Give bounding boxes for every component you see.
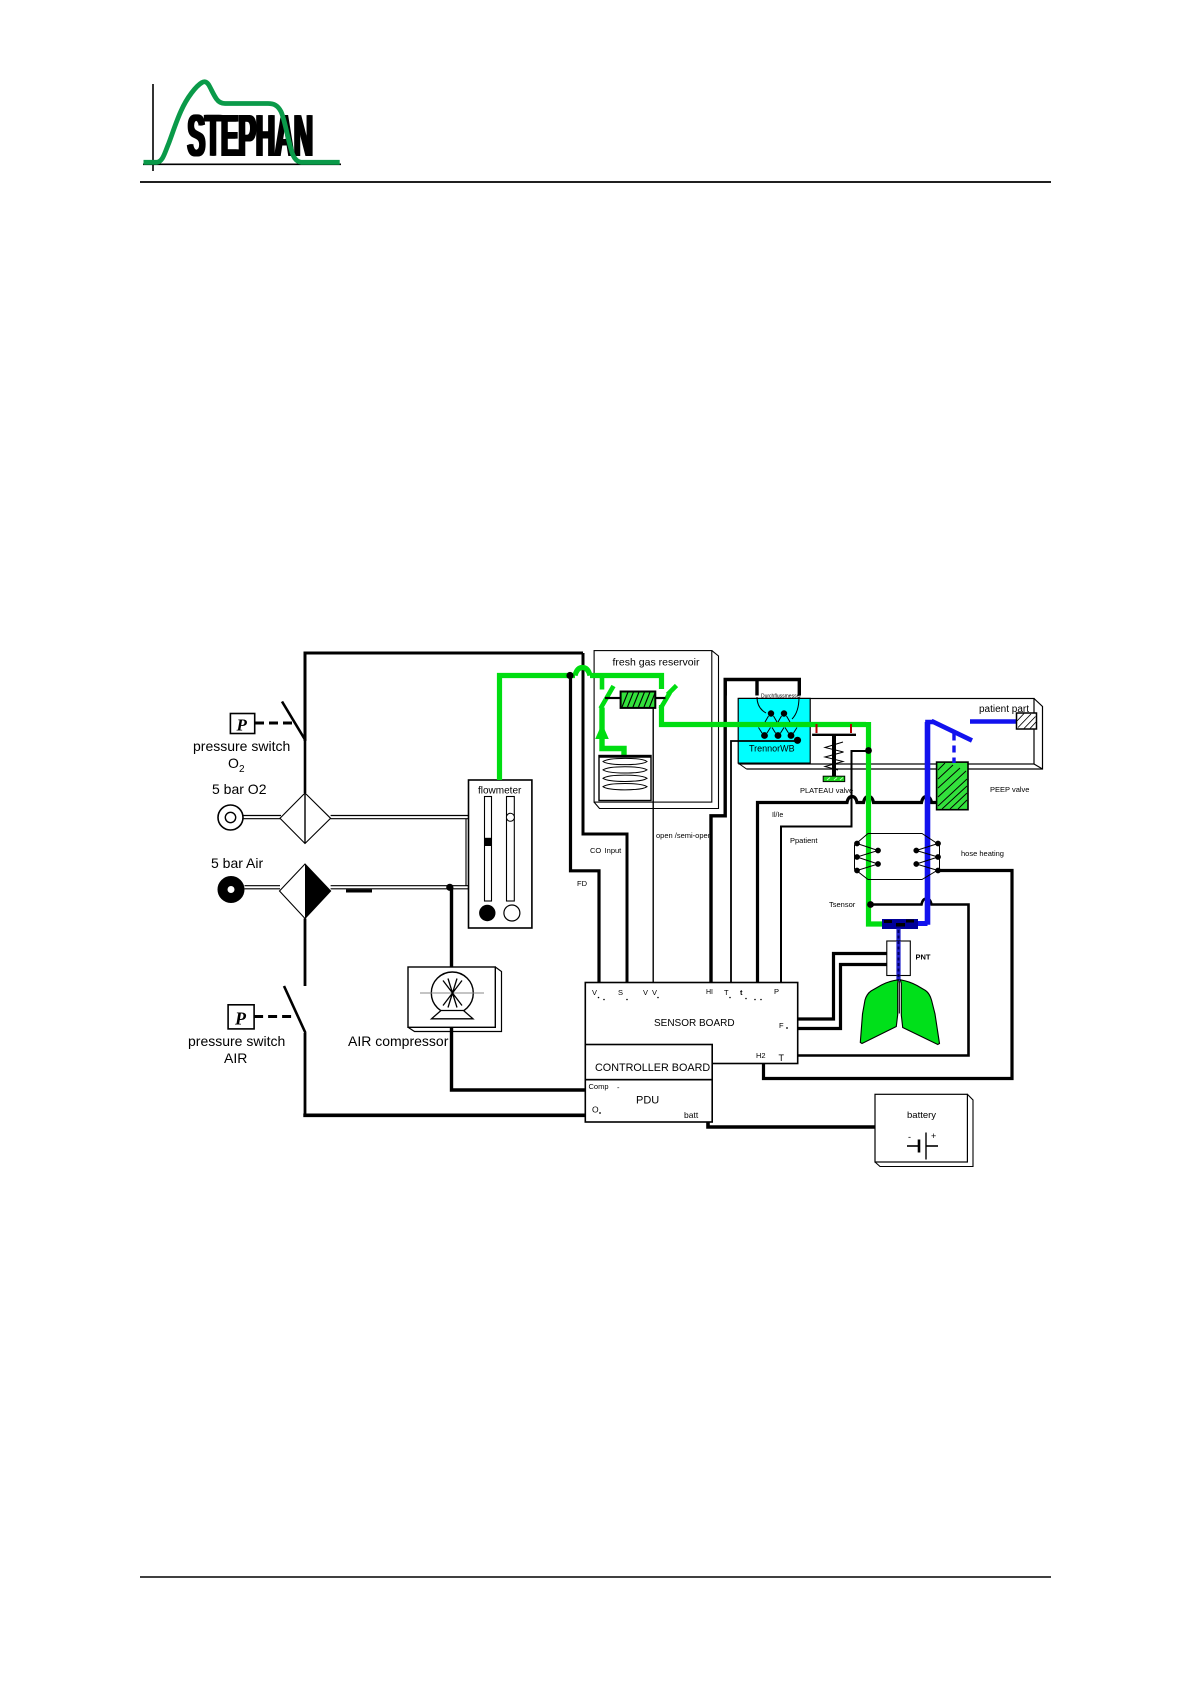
label pressure switch O2 xyxy=(193,738,290,775)
PEEP valve (green hatched) xyxy=(937,762,1030,810)
pressure switch AIR contact xyxy=(284,919,306,1117)
blue expiratory line down xyxy=(910,722,928,925)
wire: top supply line from O2 switch to CO-input drop xyxy=(305,653,583,741)
wire: flow sensor line B to PNT xyxy=(798,965,887,1029)
flowmeter right tube xyxy=(506,797,514,902)
wire: PDU batt to battery xyxy=(708,1122,875,1127)
svg-text:AIR: AIR xyxy=(224,1050,247,1066)
wire: compressor to PDU Comp input xyxy=(452,1027,586,1090)
PNT pneumotach xyxy=(887,929,931,982)
svg-text:T: T xyxy=(779,1053,785,1063)
svg-text:PDU: PDU xyxy=(636,1095,659,1107)
svg-text:V: V xyxy=(592,988,597,997)
green pipe down to Y-piece xyxy=(869,722,886,924)
label Durchflussmesser xyxy=(761,694,801,700)
svg-text:Tsensor: Tsensor xyxy=(829,900,856,909)
svg-text:HI: HI xyxy=(706,989,713,996)
O2 filter diamond xyxy=(280,741,331,844)
wire: flow sensor line A to PNT xyxy=(798,954,887,1020)
battery cell symbol xyxy=(907,1131,938,1160)
bellows container xyxy=(599,756,651,801)
wire: Trenner output to sensor board pin T xyxy=(731,741,798,983)
Air pipe double line (inlet to filter) xyxy=(245,886,281,889)
connector pins lower xyxy=(759,728,802,744)
O2 pipe double line (filter to flowmeter) xyxy=(331,816,469,819)
green line: left switch to bellows with arrows xyxy=(595,708,631,778)
label AIR compressor xyxy=(348,1033,449,1049)
logo green pressure curve xyxy=(144,82,340,163)
patient part box xyxy=(739,699,1043,770)
TrennerWB cyan box xyxy=(738,698,810,769)
flowmeter box xyxy=(469,780,532,928)
wire: open/semi-open line to sensor board xyxy=(653,708,712,983)
green pipe: flowmeter up and right to reservoir xyxy=(500,668,662,781)
wire: FD line to sensor board pin V xyxy=(571,677,600,983)
PDU xyxy=(585,1080,712,1122)
flowmeter left tube xyxy=(485,797,492,902)
O2 inlet connector xyxy=(218,805,243,830)
svg-text:V: V xyxy=(652,988,657,997)
svg-text:flowmeter: flowmeter xyxy=(478,786,522,797)
connector pins upper xyxy=(757,697,799,722)
svg-text:open /semi-open: open /semi-open xyxy=(656,831,712,840)
svg-text:batt: batt xyxy=(684,1110,699,1120)
label 5 bar Air xyxy=(211,855,263,871)
svg-text:P: P xyxy=(236,716,248,735)
flowmeter manifold line xyxy=(465,819,467,886)
footer rule xyxy=(140,1576,1051,1578)
svg-text:P: P xyxy=(774,987,779,996)
header rule xyxy=(140,181,1051,183)
fresh gas reservoir box xyxy=(594,651,718,809)
svg-text:S: S xyxy=(618,988,623,997)
patient connector (hatched) xyxy=(1017,713,1037,729)
svg-text:hose heating: hose heating xyxy=(961,849,1004,858)
label FD xyxy=(577,879,588,888)
wire: staple left leg to sensor board pin HI xyxy=(711,680,725,983)
svg-text:CO Input: CO Input xyxy=(590,846,622,855)
label Ii/Ie xyxy=(772,812,783,819)
wire: plateau/PEEP control line to pin t (with bridges) xyxy=(758,797,937,983)
svg-text:O: O xyxy=(592,1105,599,1115)
pressure switch O2 P-box xyxy=(230,714,294,735)
red mark 1 on green pipe xyxy=(816,724,818,733)
svg-text:P: P xyxy=(234,1009,247,1029)
label 5 bar O2 xyxy=(212,781,267,797)
green pipe: right switch down and right across Trenner to patient circuit xyxy=(662,705,867,725)
reservoir bypass valve (green hatched) xyxy=(605,692,666,708)
logo wordmark STEPHAN xyxy=(186,102,314,169)
CONTROLLER BOARD xyxy=(585,1045,712,1080)
Air inlet connector xyxy=(223,881,240,898)
svg-text:Il/Ie: Il/Ie xyxy=(772,812,783,819)
SENSOR BOARD xyxy=(585,983,797,1064)
red mark 2 on green pipe xyxy=(850,724,852,733)
wire: CO input line down to sensor board pin S xyxy=(583,653,627,983)
flowmeter knobs xyxy=(479,905,520,921)
wire: flow sensor staple bar xyxy=(725,680,799,696)
lungs xyxy=(860,980,939,1045)
green switch left (reservoir inlet) xyxy=(601,676,614,709)
svg-text:V: V xyxy=(643,988,648,997)
svg-text:Comp: Comp xyxy=(589,1082,609,1091)
Air check valve diamond xyxy=(280,864,331,919)
svg-text:TrennorWB: TrennorWB xyxy=(749,744,795,754)
hose heating connector bundle xyxy=(854,834,1004,880)
svg-text:O: O xyxy=(228,755,239,771)
Y-piece block xyxy=(882,919,918,929)
Air pipe double line (valve to flowmeter) xyxy=(331,886,469,893)
label pressure switch AIR xyxy=(188,1033,285,1066)
svg-text:F: F xyxy=(779,1021,784,1030)
compressor motor symbol xyxy=(420,972,484,1019)
svg-text:H2: H2 xyxy=(756,1051,766,1060)
label CO Input xyxy=(590,846,622,855)
junction: FD tap on green pipe xyxy=(566,672,573,679)
svg-text:5 bar Air: 5 bar Air xyxy=(211,855,263,871)
battery box xyxy=(875,1094,973,1166)
logo baseline horizontal line xyxy=(143,163,341,165)
plateau valve xyxy=(800,735,856,795)
svg-text:PLATEAU valve: PLATEAU valve xyxy=(800,786,853,795)
green switch right (reservoir outlet) xyxy=(661,686,677,709)
wire: Ppatient line to pin P xyxy=(781,751,866,983)
svg-text:+: + xyxy=(931,1131,936,1141)
junction: air line to compressor xyxy=(446,884,453,891)
svg-text:pressure switch: pressure switch xyxy=(193,738,290,754)
logo axis vertical line xyxy=(152,84,154,171)
AIR compressor box xyxy=(408,967,502,1032)
svg-text:PNT: PNT xyxy=(916,953,931,962)
svg-text:2: 2 xyxy=(239,764,245,775)
svg-text:CONTROLLER BOARD: CONTROLLER BOARD xyxy=(595,1062,710,1074)
svg-text:FD: FD xyxy=(577,879,588,888)
junction: Ppatient tap dot on green line xyxy=(865,747,872,754)
svg-text:Ppatient: Ppatient xyxy=(790,836,818,845)
svg-text:fresh gas reservoir: fresh gas reservoir xyxy=(613,657,700,669)
svg-text:5 bar O2: 5 bar O2 xyxy=(212,781,267,797)
svg-text:SENSOR BOARD: SENSOR BOARD xyxy=(654,1018,735,1029)
wire: AIR switch to PDU O2 input xyxy=(303,1114,585,1118)
blue tube to patient xyxy=(970,719,1017,724)
Tsensor tap dot on green line xyxy=(867,901,874,908)
O2 pipe double line (inlet to filter) xyxy=(244,816,282,819)
wire: air junction down into compressor xyxy=(450,887,453,967)
wire: Tsensor to board pin T (with bridge over blue) xyxy=(798,899,969,1056)
svg-text:PEEP valve: PEEP valve xyxy=(990,785,1029,794)
pressure switch AIR P-box xyxy=(228,1005,293,1029)
blue expiratory switch xyxy=(928,721,973,763)
pressure switch O2 contact xyxy=(282,653,306,741)
bellows pleats xyxy=(603,758,647,790)
wire: hose heating supply from PDU H2 xyxy=(764,871,1013,1079)
svg-text:battery: battery xyxy=(907,1110,936,1121)
svg-text:pressure switch: pressure switch xyxy=(188,1033,285,1049)
svg-text:AIR compressor: AIR compressor xyxy=(348,1033,449,1049)
svg-text:-: - xyxy=(908,1132,911,1142)
svg-text:T: T xyxy=(724,988,729,997)
